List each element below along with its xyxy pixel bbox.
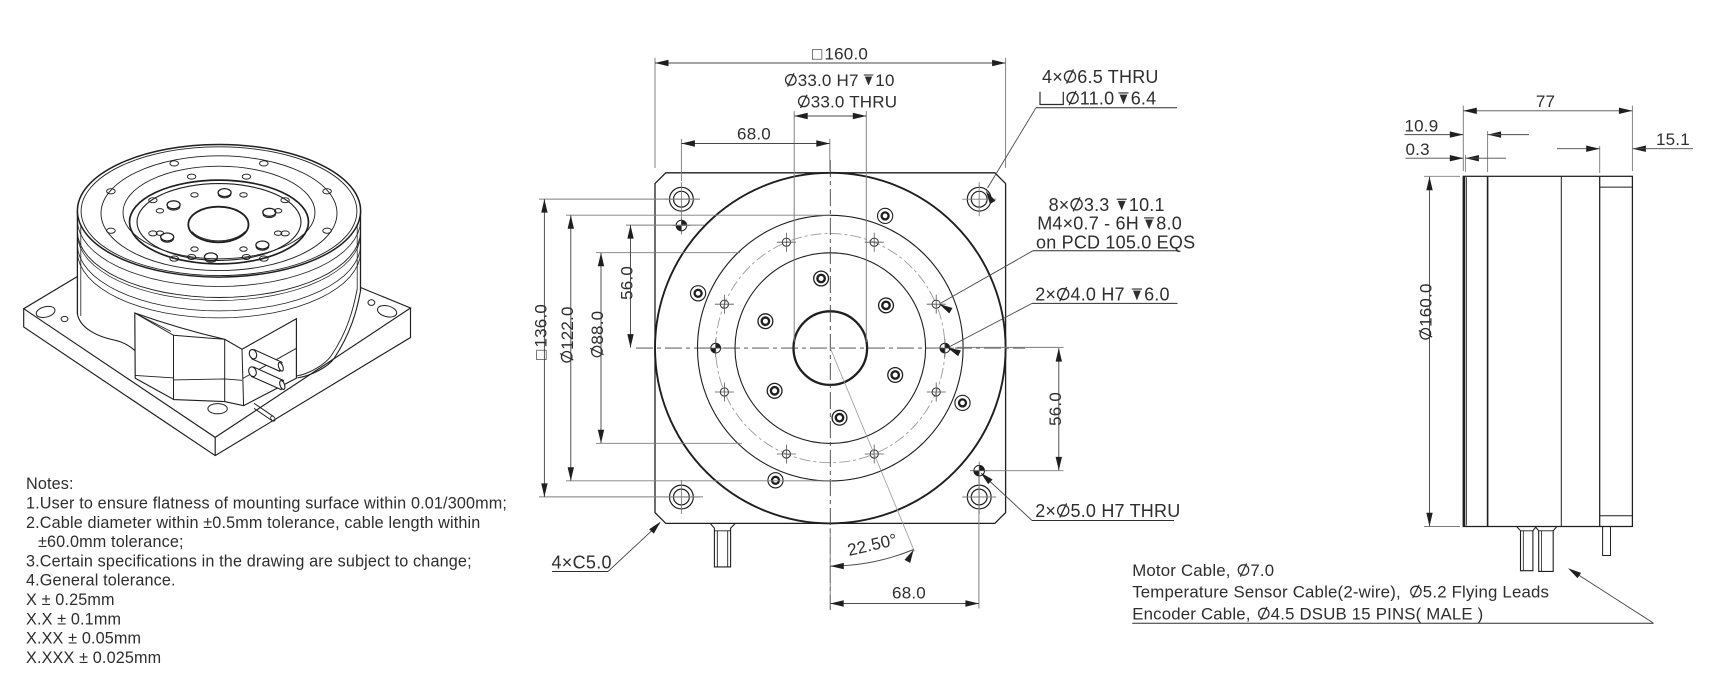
svg-text:88.0: 88.0 — [588, 311, 607, 345]
svg-text:±60.0mm tolerance;: ±60.0mm tolerance; — [38, 533, 184, 551]
section line encoder — [1599, 176, 1601, 526]
iso connector pins — [247, 348, 286, 390]
svg-text:2×: 2× — [1035, 501, 1056, 521]
thick rotor face — [1463, 176, 1466, 526]
center hole D33 — [794, 311, 868, 385]
svg-text:4×C5.0: 4×C5.0 — [552, 553, 612, 573]
iso socket screws — [218, 189, 231, 197]
iso ring B — [123, 166, 315, 259]
svg-text:6.5 THRU: 6.5 THRU — [1077, 67, 1158, 87]
svg-text:X.XXX ± 0.025mm: X.XXX ± 0.025mm — [26, 649, 161, 667]
cable stub 1 — [1517, 527, 1537, 571]
dim 0.3 — [1464, 155, 1466, 172]
horizontal centerline — [636, 347, 1025, 349]
svg-text:Encoder Cable,: Encoder Cable, — [1132, 605, 1250, 624]
svg-text:6.4: 6.4 — [1131, 89, 1157, 109]
iso rim chamfer ellipse — [81, 147, 357, 276]
dim D122.0 left — [566, 214, 830, 216]
svg-text:56.0: 56.0 — [1046, 392, 1065, 426]
dim 15.1 — [1599, 146, 1601, 173]
leader to cable stubs — [1132, 622, 1653, 624]
8x M4 tapped holes PCD105 — [932, 300, 940, 308]
svg-text:2×: 2× — [1035, 285, 1056, 305]
svg-text:11.0: 11.0 — [1080, 89, 1115, 109]
svg-text:4.General tolerance.: 4.General tolerance. — [26, 572, 176, 590]
svg-text:160.0: 160.0 — [825, 45, 869, 64]
4 counterbored holes outer ring — [878, 208, 893, 223]
svg-text:X.X ± 0.1mm: X.X ± 0.1mm — [26, 610, 121, 628]
svg-text:68.0: 68.0 — [892, 584, 926, 603]
svg-text:33.0 H7: 33.0 H7 — [798, 71, 859, 90]
dim 160.0 top — [654, 58, 656, 168]
side view body — [1463, 176, 1632, 526]
iso base plate thickness — [24, 308, 411, 456]
svg-text:1.User to ensure flatness of m: 1.User to ensure flatness of mounting su… — [26, 495, 507, 513]
dim 136.0 left — [539, 198, 700, 200]
iso cylinder bottom left arc — [77, 314, 135, 351]
6 socket screws — [879, 298, 894, 313]
svg-text:5.2 Flying Leads: 5.2 Flying Leads — [1423, 583, 1549, 602]
svg-text:3.3: 3.3 — [1084, 195, 1110, 215]
svg-text:10.9: 10.9 — [1405, 117, 1439, 136]
svg-text:5.0 H7 THRU: 5.0 H7 THRU — [1071, 501, 1181, 521]
dim lines D33 — [793, 111, 795, 342]
iso ring A — [101, 156, 337, 271]
svg-text:X ± 0.25mm: X ± 0.25mm — [26, 591, 115, 609]
svg-text:0.3: 0.3 — [1406, 140, 1430, 159]
iso cylinder left side — [76, 211, 78, 314]
svg-text:4×: 4× — [1042, 67, 1063, 87]
iso outer band holes — [323, 189, 332, 194]
dim 68.0 bottom — [978, 476, 980, 609]
iso cylinder right side — [360, 211, 362, 291]
svg-text:33.0 THRU: 33.0 THRU — [811, 93, 898, 112]
angle dim 22.50 — [830, 348, 914, 551]
circle D88 — [735, 253, 926, 444]
svg-text:X.XX ± 0.05mm: X.XX ± 0.05mm — [26, 630, 141, 648]
svg-text:160.0: 160.0 — [1417, 283, 1436, 327]
svg-text:2.Cable diameter within ±0.5mm: 2.Cable diameter within ±0.5mm tolerance… — [26, 514, 480, 532]
svg-text:6.0: 6.0 — [1144, 285, 1170, 305]
iso wall band arcs — [77, 220, 360, 286]
cable stub 2 — [1535, 527, 1557, 572]
svg-text:M4×0.7 - 6H: M4×0.7 - 6H — [1037, 214, 1139, 234]
dim 10.9 — [1487, 131, 1489, 172]
svg-text:10.1: 10.1 — [1129, 195, 1165, 215]
iso center bore — [188, 207, 248, 243]
svg-text:4.0 H7: 4.0 H7 — [1071, 285, 1125, 305]
svg-text:Notes:: Notes: — [26, 475, 74, 493]
vertical centerline — [829, 160, 831, 610]
svg-text:Motor Cable,: Motor Cable, — [1132, 561, 1230, 580]
svg-text:136.0: 136.0 — [531, 304, 550, 348]
section line 10.9 — [1487, 176, 1489, 526]
bolt circle PCD105 — [716, 234, 945, 463]
dim D88.0 left — [596, 252, 740, 254]
dim 68.0 top — [680, 139, 682, 181]
label D33.0 THRU — [799, 95, 810, 108]
label D33.0 H7 10 — [786, 73, 797, 86]
encoder plate edges — [1600, 186, 1633, 188]
iso inner ring holes — [274, 209, 281, 213]
svg-text:□: □ — [812, 45, 822, 64]
corner counterbore holes 4xD6.5 — [670, 187, 694, 211]
iso cylinder bottom right arcs — [298, 291, 361, 378]
dowel pins D5 H7 — [681, 220, 686, 225]
svg-text:Temperature Sensor Cable(2-wir: Temperature Sensor Cable(2-wire), — [1132, 583, 1401, 602]
circle D122 — [698, 215, 964, 481]
iso top outer ellipse — [77, 145, 360, 278]
top view square plate — [655, 173, 1006, 524]
iso small bottom pin — [254, 403, 273, 420]
svg-text:68.0: 68.0 — [737, 125, 771, 144]
dim 77 — [1462, 106, 1464, 171]
svg-text:on PCD 105.0 EQS: on PCD 105.0 EQS — [1036, 233, 1195, 253]
svg-text:15.1: 15.1 — [1656, 130, 1690, 149]
svg-text:77: 77 — [1536, 92, 1555, 111]
svg-text:22.50°: 22.50° — [846, 530, 900, 560]
iso base plate top face — [24, 277, 411, 438]
outer circle D160 — [655, 173, 1006, 524]
svg-text:□: □ — [531, 350, 550, 360]
iso connector housing — [135, 313, 297, 406]
iso platen thick ring — [130, 180, 309, 264]
svg-text:8.0: 8.0 — [1156, 214, 1182, 234]
iso base corner slots — [35, 305, 56, 320]
svg-text:3.Certain specifications in th: 3.Certain specifications in the drawing … — [26, 552, 472, 570]
iso mid ring holes — [281, 198, 289, 203]
svg-text:8×: 8× — [1049, 195, 1070, 215]
dowel pins D4 H7 — [716, 343, 721, 348]
svg-text:4.5 DSUB 15 PINS( MALE ): 4.5 DSUB 15 PINS( MALE ) — [1271, 605, 1484, 624]
svg-text:7.0: 7.0 — [1250, 561, 1274, 580]
cable stub 3 — [1603, 527, 1611, 556]
dim D160.0 — [1424, 175, 1460, 177]
dim 56.0 left — [626, 224, 704, 226]
connector stub bottom of plate — [710, 523, 735, 567]
svg-text:10: 10 — [875, 71, 894, 90]
svg-text:122.0: 122.0 — [558, 306, 577, 350]
dim 56.0 right — [957, 346, 1064, 348]
svg-text:56.0: 56.0 — [618, 266, 637, 300]
section line mid — [1560, 176, 1562, 526]
